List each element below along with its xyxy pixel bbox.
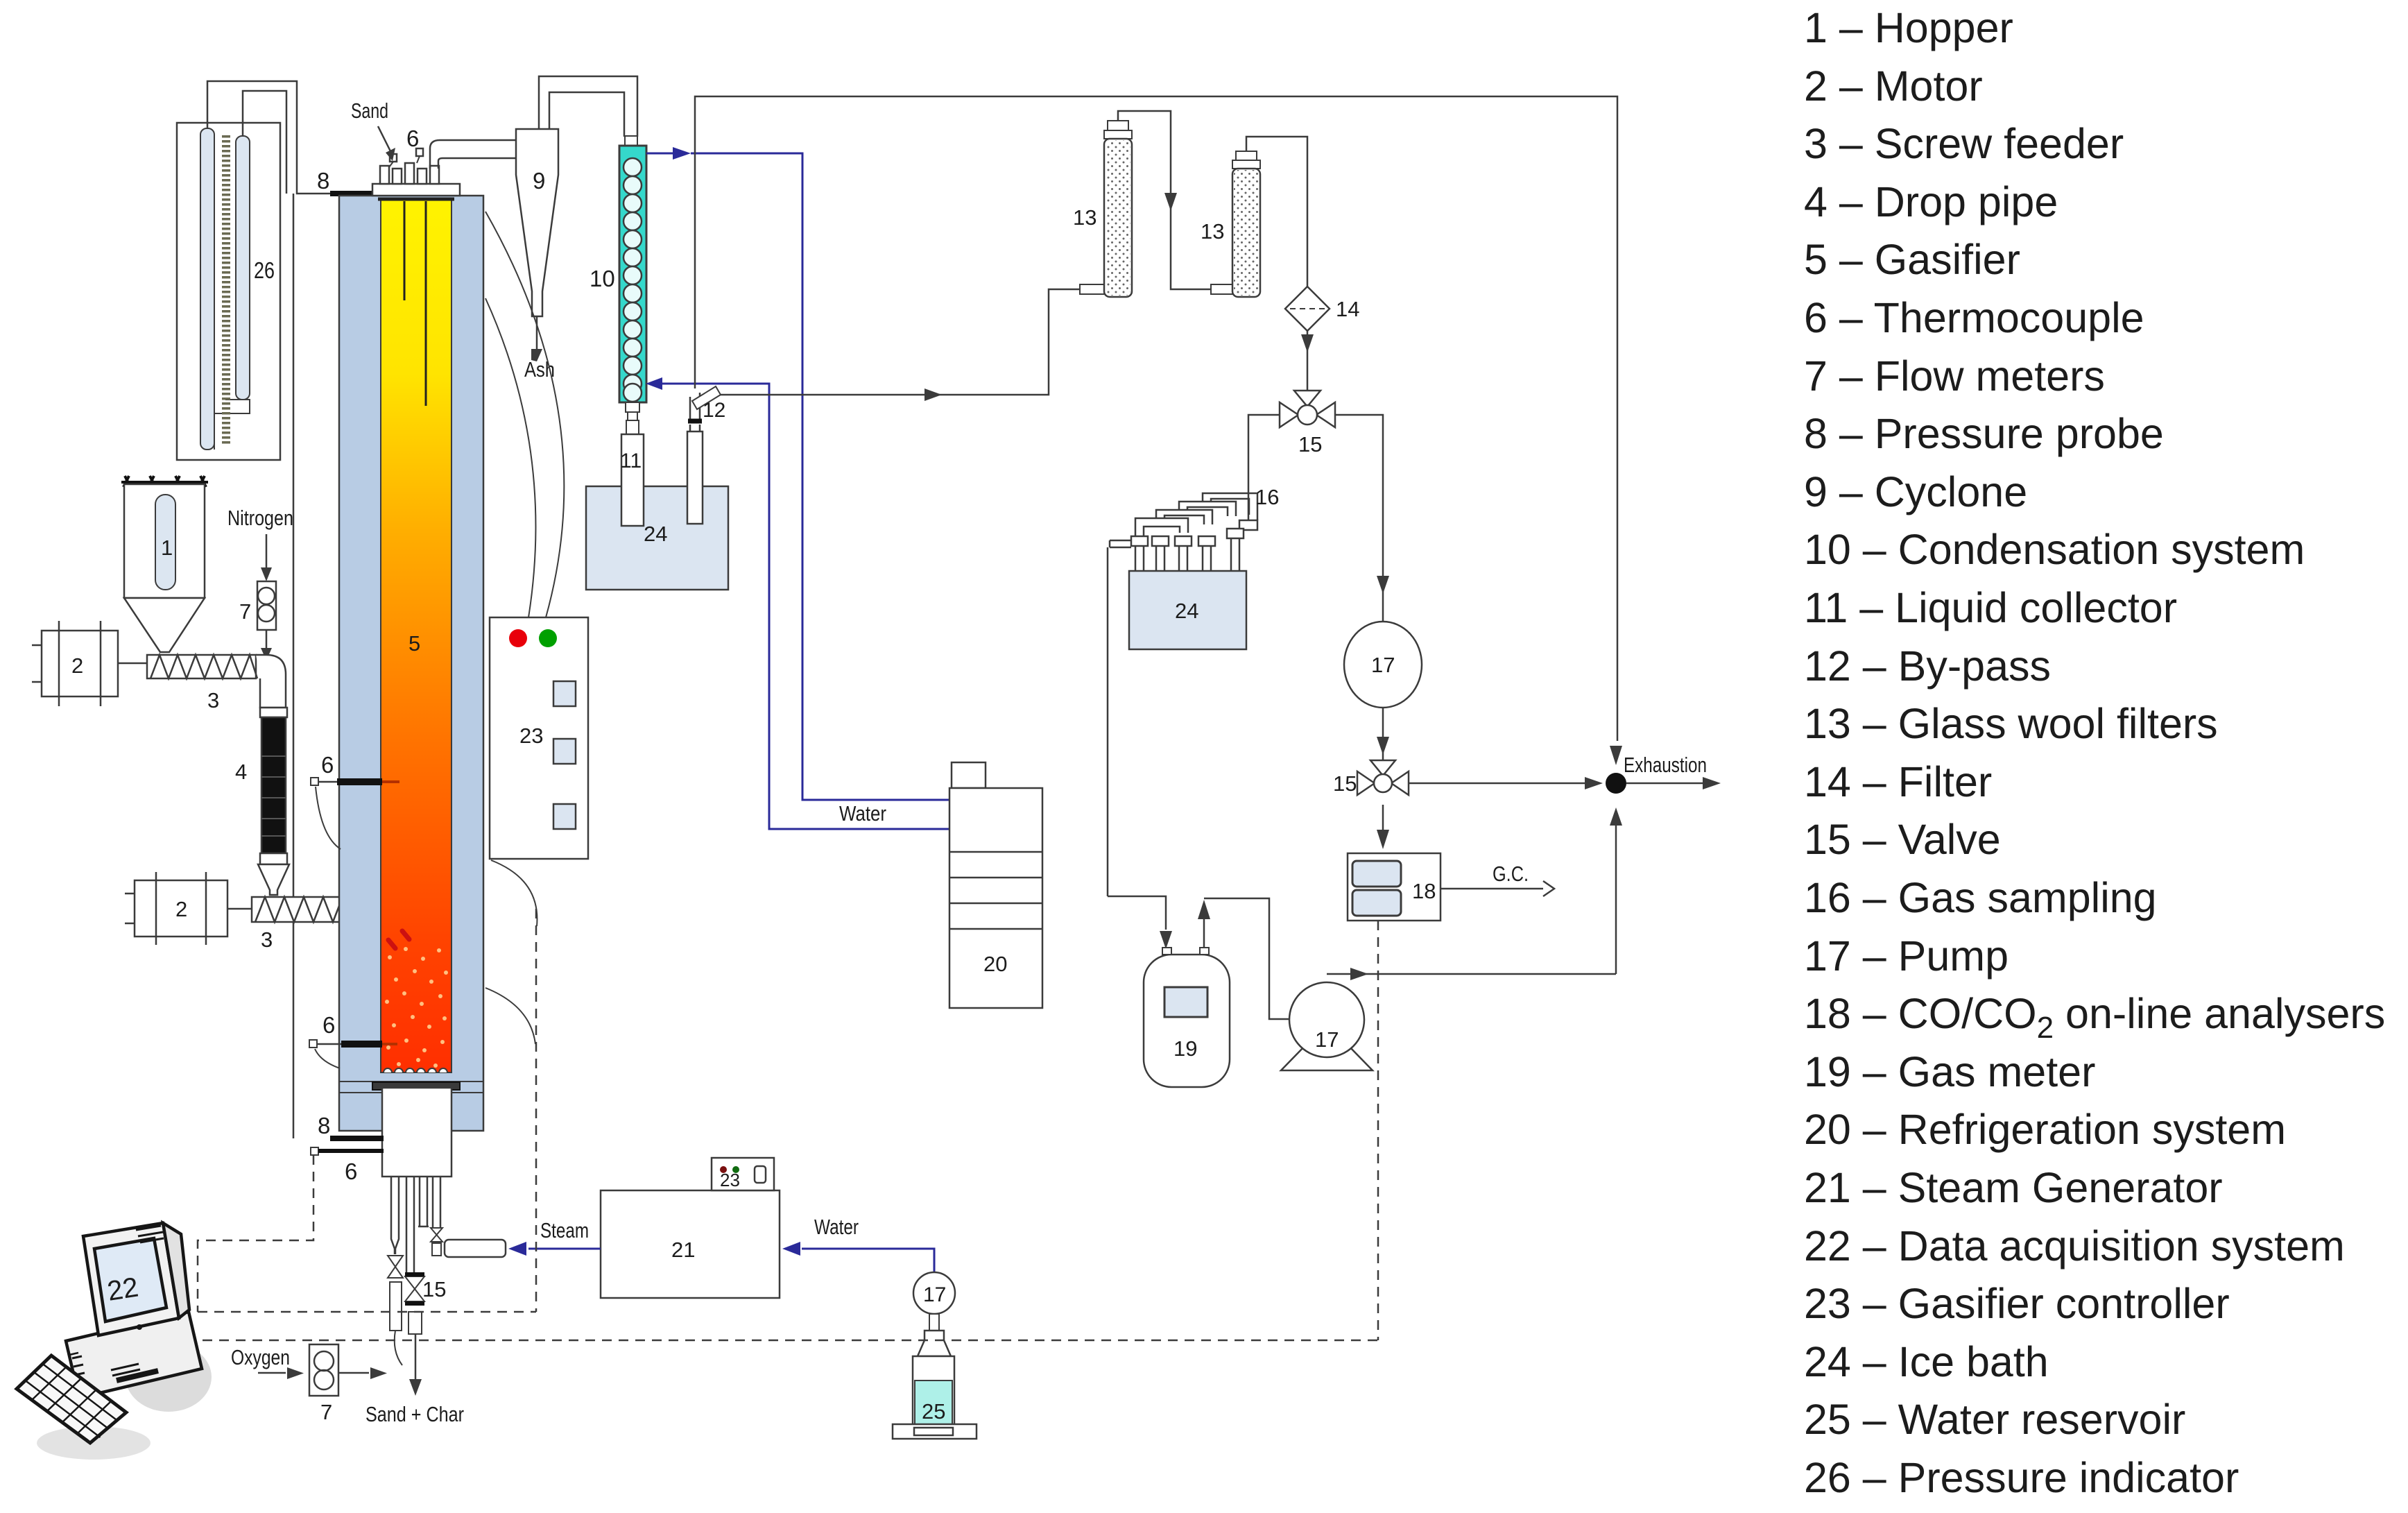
svg-text:18 – CO/CO2 on-line analysers: 18 – CO/CO2 on-line analysers — [1804, 990, 2385, 1045]
liquid collector 11 bottle — [621, 434, 644, 526]
bottom cone box — [382, 1088, 452, 1177]
svg-text:Water: Water — [814, 1215, 859, 1239]
ice bath 24 (right) — [1129, 571, 1246, 649]
steam generator controller 23 — [712, 1158, 774, 1190]
svg-text:2: 2 — [71, 653, 83, 678]
svg-text:12 – By-pass: 12 – By-pass — [1804, 642, 2051, 690]
svg-text:6: 6 — [345, 1159, 357, 1184]
ash arrow — [536, 316, 538, 350]
steam generator 21 — [601, 1190, 780, 1298]
water blue line (reservoir to generator) — [802, 1249, 934, 1273]
G.C. line — [1440, 888, 1543, 890]
svg-text:26: 26 — [254, 257, 275, 283]
svg-text:16 – Gas sampling: 16 – Gas sampling — [1804, 874, 2157, 921]
arrow filter14 to valve — [1307, 331, 1309, 391]
svg-text:Water: Water — [839, 801, 886, 826]
oxygen arrow in — [258, 1372, 286, 1374]
gas meter out line to pump — [1204, 898, 1314, 1019]
pressure indicator 26 — [177, 123, 280, 460]
svg-text:15 – Valve: 15 – Valve — [1804, 816, 2001, 863]
svg-text:20: 20 — [983, 952, 1007, 976]
motor 2 (bottom) — [125, 872, 227, 945]
filter 14 — [1285, 287, 1330, 331]
thermocouple 6 (lower) — [309, 1040, 397, 1068]
pump 17 (gas) — [1344, 622, 1422, 708]
svg-text:19 – Gas meter: 19 – Gas meter — [1804, 1048, 2095, 1095]
small valve on steam tube — [431, 1228, 442, 1256]
svg-text:3: 3 — [207, 688, 219, 712]
bottom tube 3 — [418, 1177, 429, 1226]
arrow into node from top — [1610, 746, 1622, 765]
svg-text:13 – Glass wool filters: 13 – Glass wool filters — [1804, 700, 2218, 747]
wire motor to screw feeder (bottom) — [227, 908, 252, 910]
motor 2 (top) — [32, 621, 118, 706]
water in blue line (refrigeration to condenser bottom) — [662, 384, 949, 829]
svg-text:7: 7 — [320, 1400, 332, 1424]
wire arc lower thermocouple to dashed bus — [485, 988, 535, 1044]
by-pass bottle — [687, 431, 703, 524]
svg-text:22 – Data acquisition system: 22 – Data acquisition system — [1804, 1222, 2345, 1270]
svg-text:7 – Flow meters: 7 – Flow meters — [1804, 352, 2105, 400]
gas line bypass to filters — [720, 289, 1080, 395]
pressure probe 8 (top) — [330, 191, 375, 196]
nitrogen arrow down — [266, 534, 268, 569]
svg-text:11: 11 — [620, 450, 642, 472]
svg-text:5 – Gasifier: 5 – Gasifier — [1804, 236, 2020, 283]
svg-text:15: 15 — [1298, 432, 1322, 456]
bottom tube 2 — [406, 1177, 414, 1272]
svg-text:1: 1 — [161, 536, 173, 560]
svg-text:Nitrogen: Nitrogen — [227, 506, 293, 530]
svg-text:3 – Screw feeder: 3 – Screw feeder — [1804, 120, 2124, 167]
svg-text:8 – Pressure probe: 8 – Pressure probe — [1804, 410, 2164, 457]
svg-text:Sand + Char: Sand + Char — [365, 1402, 464, 1426]
svg-text:2: 2 — [175, 897, 187, 921]
wire pressure indicator to top pressure probe 8 — [207, 81, 330, 194]
svg-text:17: 17 — [1371, 653, 1395, 677]
pump out line to exhaustion — [1327, 973, 1616, 975]
svg-text:Steam: Steam — [540, 1218, 589, 1242]
svg-text:17 – Pump: 17 – Pump — [1804, 932, 2009, 980]
thermocouple rods inside — [404, 201, 426, 406]
screw feeder 3 (bottom) — [252, 897, 389, 922]
legend — [1804, 4, 2385, 1501]
distributor plate bubbles — [384, 1068, 447, 1072]
svg-text:5: 5 — [409, 631, 420, 656]
bottom tube 4 — [433, 1177, 440, 1228]
line valve to analysers — [1382, 805, 1384, 830]
line pump to valve — [1382, 708, 1384, 760]
svg-text:12: 12 — [703, 399, 725, 422]
svg-text:23 – Gasifier controller: 23 – Gasifier controller — [1804, 1280, 2230, 1327]
svg-text:24: 24 — [644, 522, 667, 546]
wire motor to screw feeder — [118, 663, 147, 665]
pump 17 (exhaust) — [1281, 982, 1373, 1070]
funnel to bottom screw feeder — [258, 864, 289, 895]
svg-text:4 – Drop pipe: 4 – Drop pipe — [1804, 178, 2058, 225]
svg-text:23: 23 — [720, 1170, 740, 1190]
hopper 1 — [124, 484, 205, 652]
wire arc gasifier to controller (upper) — [485, 212, 564, 617]
svg-text:15: 15 — [1333, 771, 1357, 796]
refrigeration system 20 — [949, 762, 1042, 1008]
thermocouple 6 (mid) — [311, 778, 399, 849]
svg-text:1 – Hopper: 1 – Hopper — [1804, 4, 2013, 51]
sand+char arrow — [415, 1334, 417, 1380]
svg-text:13: 13 — [1073, 205, 1096, 230]
hopper 1 support rail — [121, 476, 208, 487]
wire arc controller to dashed bus — [491, 860, 537, 926]
svg-text:23: 23 — [519, 724, 543, 748]
pressure probe 8 (bottom) — [330, 1136, 384, 1141]
svg-text:7: 7 — [239, 599, 251, 624]
svg-text:9: 9 — [533, 168, 545, 194]
svg-text:3: 3 — [261, 928, 273, 952]
by-pass 12 — [688, 386, 721, 431]
bed bubbles — [385, 947, 448, 1068]
pipe flow meter to elbow — [266, 630, 268, 649]
svg-text:15: 15 — [422, 1277, 446, 1301]
bottom flange — [340, 1082, 483, 1093]
thermocouple 6 (bottom) — [311, 1147, 384, 1155]
steam blue line — [528, 1248, 601, 1250]
wire down to bottom pressure probe 8 — [293, 194, 295, 1138]
gasifier 5 outer column — [339, 196, 483, 1131]
elbow pipe — [256, 655, 286, 708]
line sampling to gas meter — [1108, 896, 1166, 930]
sand arrow — [378, 126, 390, 151]
line valve to pump — [1335, 415, 1383, 622]
dashed control lines — [198, 909, 1378, 1340]
long bypass line to exhaustion — [695, 96, 1617, 741]
svg-text:10: 10 — [590, 266, 615, 291]
svg-text:G.C.: G.C. — [1493, 862, 1529, 886]
condensation system 10 — [619, 146, 646, 402]
svg-text:14 – Filter: 14 – Filter — [1804, 758, 1992, 805]
nozzles 6 on top — [380, 148, 439, 184]
svg-text:14: 14 — [1336, 297, 1359, 321]
steam injector — [445, 1240, 506, 1257]
svg-text:8: 8 — [318, 1113, 330, 1138]
gasifier controller 23 — [490, 617, 588, 859]
bottom tube 1 — [391, 1177, 399, 1254]
CO/CO2 analysers 18 — [1348, 853, 1440, 921]
svg-text:25 – Water reservoir: 25 – Water reservoir — [1804, 1396, 2185, 1443]
wire pressure indicator branch — [243, 91, 286, 194]
arrow into node from bottom — [1615, 826, 1617, 974]
glass wool filter 13 (right) — [1211, 151, 1260, 297]
gas meter 19 — [1144, 948, 1230, 1087]
svg-text:9 – Cyclone: 9 – Cyclone — [1804, 468, 2027, 515]
condenser bottom fittings — [626, 402, 639, 434]
svg-text:25: 25 — [922, 1399, 945, 1424]
svg-text:Sand: Sand — [351, 99, 388, 123]
svg-text:4: 4 — [235, 760, 247, 784]
line valve to exhaustion node — [1409, 783, 1585, 785]
data acquisition computer 22 — [17, 1223, 212, 1460]
svg-text:24: 24 — [1175, 599, 1198, 623]
line valve to gas sampling — [1248, 415, 1280, 520]
valve 15 on tube 2 — [405, 1276, 424, 1301]
svg-text:24 – Ice bath: 24 – Ice bath — [1804, 1338, 2049, 1385]
valve 15 (exhaust) — [1357, 760, 1409, 795]
gasifier 5 inner reactor tube — [381, 199, 452, 1072]
cyclone 9 — [516, 129, 558, 316]
svg-text:18: 18 — [1412, 879, 1436, 903]
drop pipe 4 — [260, 708, 287, 864]
svg-text:19: 19 — [1173, 1036, 1197, 1061]
pump 17 (water) — [913, 1272, 955, 1314]
svg-text:16: 16 — [1255, 485, 1279, 509]
pipe filter2 top to filter 14 — [1246, 137, 1307, 287]
exhaustion out arrow — [1626, 783, 1703, 785]
svg-text:Oxygen: Oxygen — [231, 1345, 290, 1369]
water out blue line (condenser top to refrigeration) — [646, 153, 949, 800]
pipe gasifier to cyclone — [430, 140, 516, 169]
top flange — [372, 184, 460, 199]
svg-text:20 – Refrigeration system: 20 – Refrigeration system — [1804, 1106, 2286, 1153]
pipe cyclone to condenser — [539, 76, 637, 137]
svg-text:10 – Condensation system: 10 – Condensation system — [1804, 526, 2305, 573]
svg-text:8: 8 — [317, 168, 329, 194]
fuel injection marks — [388, 931, 409, 948]
svg-text:26 – Pressure indicator: 26 – Pressure indicator — [1804, 1454, 2239, 1501]
svg-text:13: 13 — [1201, 219, 1224, 243]
valve 15 (sampling) — [1280, 391, 1335, 427]
ice bath 24 (left) — [586, 486, 728, 590]
valve 15 on tube 1 — [388, 1256, 403, 1278]
svg-text:17: 17 — [923, 1283, 946, 1306]
svg-text:6: 6 — [321, 752, 334, 778]
wire arc gasifier to controller (inner) — [485, 298, 535, 617]
svg-text:22: 22 — [105, 1272, 141, 1306]
svg-text:6 – Thermocouple: 6 – Thermocouple — [1804, 294, 2144, 341]
svg-text:11 – Liquid collector: 11 – Liquid collector — [1804, 584, 2177, 631]
glass wool filter 13 (left) — [1080, 121, 1132, 297]
pipe filter1 top over to filter2 bottom — [1118, 111, 1211, 289]
svg-text:2 – Motor: 2 – Motor — [1804, 62, 1983, 110]
svg-text:6: 6 — [406, 126, 419, 151]
condenser top fitting — [625, 136, 637, 161]
gas sampling 16 manifold — [1108, 493, 1257, 896]
svg-text:6: 6 — [322, 1012, 335, 1038]
svg-text:Exhaustion: Exhaustion — [1624, 753, 1707, 777]
svg-text:21 – Steam Generator: 21 – Steam Generator — [1804, 1164, 2223, 1211]
screw feeder 3 (top) — [147, 655, 257, 678]
water reservoir 25 — [893, 1314, 977, 1439]
flow meter 7 (nitrogen) — [257, 581, 276, 630]
svg-text:21: 21 — [671, 1238, 695, 1262]
exhaustion node — [1606, 773, 1626, 794]
svg-text:17: 17 — [1315, 1027, 1339, 1052]
flow meter 7 (oxygen) — [309, 1344, 338, 1396]
oxygen arrow to gasifier tube — [338, 1372, 369, 1374]
